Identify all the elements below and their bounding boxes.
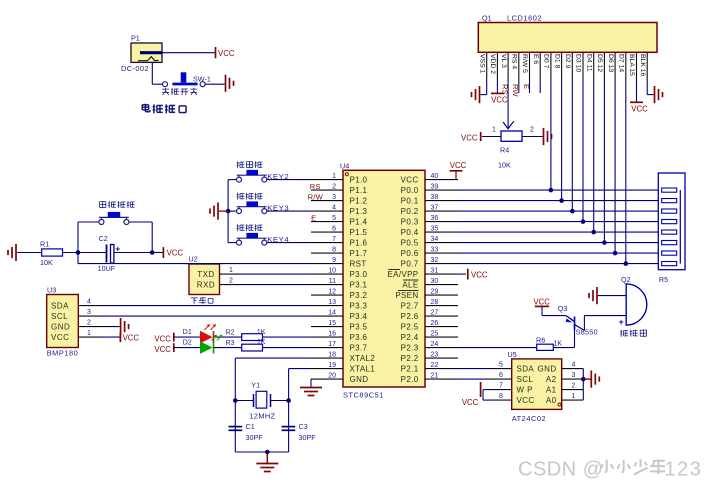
- svg-text:36: 36: [431, 215, 439, 222]
- svg-text:AT24C02: AT24C02: [512, 414, 547, 423]
- svg-text:10: 10: [328, 268, 336, 275]
- svg-text:U2: U2: [189, 255, 198, 264]
- svg-text:P1.4: P1.4: [350, 218, 368, 227]
- svg-text:P2.4: P2.4: [401, 333, 419, 342]
- svg-text:34: 34: [431, 236, 439, 243]
- svg-text:ALE: ALE: [402, 281, 418, 290]
- svg-text:VCC: VCC: [51, 333, 69, 342]
- svg-text:P3.6: P3.6: [350, 333, 368, 342]
- svg-text:8: 8: [332, 247, 336, 254]
- svg-text:VCC: VCC: [450, 161, 467, 170]
- svg-text:9: 9: [332, 257, 336, 264]
- svg-text:VCC: VCC: [631, 104, 648, 113]
- svg-text:P3.1: P3.1: [350, 281, 368, 290]
- svg-text:R3: R3: [226, 340, 235, 347]
- svg-text:17: 17: [328, 341, 336, 348]
- svg-text:P0.3: P0.3: [401, 218, 419, 227]
- svg-text:VCC: VCC: [123, 334, 140, 343]
- svg-text:GND: GND: [538, 365, 557, 374]
- svg-text:D7 14: D7 14: [618, 54, 625, 72]
- svg-text:25: 25: [431, 331, 439, 338]
- svg-text:31: 31: [431, 268, 439, 275]
- svg-text:SCL: SCL: [517, 375, 534, 384]
- svg-text:D5 12: D5 12: [596, 54, 603, 72]
- svg-text:RS: RS: [310, 182, 321, 191]
- svg-text:5: 5: [499, 361, 503, 368]
- svg-text:VCC: VCC: [462, 398, 479, 407]
- svg-text:P2.5: P2.5: [401, 323, 419, 332]
- svg-text:SDA: SDA: [51, 301, 69, 310]
- svg-text:R/W: R/W: [308, 192, 323, 201]
- svg-text:10UF: 10UF: [98, 264, 116, 273]
- svg-text:29: 29: [431, 289, 439, 296]
- svg-text:D6 13: D6 13: [607, 54, 614, 72]
- svg-text:30PF: 30PF: [246, 433, 264, 442]
- svg-text:37: 37: [431, 205, 439, 212]
- svg-text:P3.2: P3.2: [350, 291, 368, 300]
- svg-text:P0.1: P0.1: [401, 197, 419, 206]
- svg-text:SW-1: SW-1: [193, 74, 211, 83]
- svg-text:27: 27: [431, 310, 439, 317]
- svg-text:32: 32: [431, 257, 439, 264]
- svg-text:VCC: VCC: [491, 95, 508, 104]
- svg-text:VL 3: VL 3: [500, 54, 507, 68]
- svg-text:R4: R4: [500, 146, 509, 155]
- svg-text:22: 22: [431, 362, 439, 369]
- svg-text:20: 20: [328, 373, 336, 380]
- svg-text:26: 26: [431, 320, 439, 327]
- svg-text:P3.3: P3.3: [350, 302, 368, 311]
- svg-text:BLK 16: BLK 16: [639, 54, 646, 77]
- svg-text:R2: R2: [226, 330, 235, 337]
- svg-text:3: 3: [572, 372, 576, 379]
- svg-text:39: 39: [431, 184, 439, 191]
- svg-text:Y1: Y1: [251, 381, 260, 390]
- svg-text:D1: D1: [183, 329, 192, 336]
- svg-text:3: 3: [332, 194, 336, 201]
- svg-text:2: 2: [530, 126, 534, 133]
- svg-text:8: 8: [499, 393, 503, 400]
- svg-text:P3.7: P3.7: [350, 344, 368, 353]
- svg-text:EA/VPP: EA/VPP: [387, 270, 418, 279]
- svg-text:33: 33: [431, 247, 439, 254]
- svg-text:19: 19: [328, 362, 336, 369]
- svg-text:P1.0: P1.0: [350, 176, 368, 185]
- svg-text:18: 18: [328, 352, 336, 359]
- svg-text:2: 2: [572, 382, 576, 389]
- svg-text:VCC: VCC: [401, 176, 419, 185]
- svg-text:15: 15: [328, 320, 336, 327]
- svg-text:E: E: [311, 213, 316, 222]
- svg-text:A2: A2: [546, 375, 557, 384]
- svg-text:12MHZ: 12MHZ: [249, 411, 275, 420]
- svg-text:P2.0: P2.0: [401, 375, 419, 384]
- svg-text:GND: GND: [51, 322, 70, 331]
- svg-text:BMP180: BMP180: [47, 349, 79, 358]
- svg-text:P1.6: P1.6: [350, 239, 368, 248]
- svg-text:P2.1: P2.1: [401, 365, 419, 374]
- svg-text:VCC: VCC: [461, 134, 478, 143]
- svg-text:LCD1602: LCD1602: [507, 13, 542, 22]
- svg-text:P3.0: P3.0: [350, 270, 368, 279]
- svg-text:12: 12: [328, 289, 336, 296]
- svg-text:R5: R5: [659, 275, 668, 284]
- svg-text:21: 21: [431, 373, 439, 380]
- svg-text:VCC: VCC: [218, 49, 235, 58]
- svg-text:P1: P1: [131, 34, 140, 43]
- svg-text:P2.6: P2.6: [401, 312, 419, 321]
- svg-text:P3.5: P3.5: [350, 323, 368, 332]
- svg-text:PSEN: PSEN: [395, 291, 418, 300]
- svg-text:E: E: [522, 84, 531, 89]
- svg-text:E 6: E 6: [532, 54, 539, 64]
- svg-text:RXD: RXD: [197, 281, 215, 290]
- svg-text:11: 11: [329, 278, 336, 285]
- svg-text:P2.2: P2.2: [401, 354, 419, 363]
- svg-text:123: 123: [665, 459, 703, 481]
- svg-text:1: 1: [572, 393, 576, 400]
- svg-text:P0.2: P0.2: [401, 207, 419, 216]
- svg-text:P1.5: P1.5: [350, 228, 368, 237]
- svg-text:VCC: VCC: [533, 297, 550, 306]
- svg-text:C1: C1: [246, 422, 255, 431]
- svg-text:7: 7: [499, 382, 503, 389]
- svg-text:P1.1: P1.1: [350, 186, 368, 195]
- svg-text:1K: 1K: [257, 339, 266, 346]
- svg-text:R/W 5: R/W 5: [521, 54, 528, 73]
- svg-text:24: 24: [431, 341, 439, 348]
- svg-text:D1 8: D1 8: [553, 54, 560, 69]
- svg-text:2: 2: [332, 184, 336, 191]
- svg-text:VCC: VCC: [517, 396, 535, 405]
- svg-text:1: 1: [492, 126, 496, 133]
- svg-text:Q1: Q1: [482, 13, 492, 22]
- svg-text:U5: U5: [508, 350, 517, 359]
- svg-text:VSS 1: VSS 1: [478, 54, 485, 73]
- svg-text:P1.2: P1.2: [350, 197, 368, 206]
- svg-text:6: 6: [499, 372, 503, 379]
- svg-text:P2.7: P2.7: [401, 302, 419, 311]
- svg-text:1: 1: [87, 330, 91, 337]
- svg-text:38: 38: [431, 194, 439, 201]
- svg-text:R6: R6: [536, 335, 545, 344]
- svg-text:P1.3: P1.3: [350, 207, 368, 216]
- svg-text:VCC: VCC: [154, 345, 171, 354]
- svg-text:28: 28: [431, 299, 439, 306]
- svg-text:D4 11: D4 11: [585, 54, 592, 72]
- svg-text:RS: RS: [501, 84, 510, 95]
- svg-text:RW: RW: [511, 84, 520, 97]
- svg-text:1: 1: [332, 173, 336, 180]
- svg-text:VCC: VCC: [154, 335, 171, 344]
- svg-text:Q3: Q3: [558, 304, 568, 313]
- svg-text:S8550: S8550: [576, 327, 598, 336]
- svg-text:40: 40: [431, 173, 439, 180]
- svg-text:P0.7: P0.7: [401, 260, 419, 269]
- svg-text:P3.4: P3.4: [350, 312, 368, 321]
- svg-text:XTAL1: XTAL1: [350, 365, 376, 374]
- svg-text:2: 2: [87, 319, 91, 326]
- svg-text:D3 10: D3 10: [575, 54, 582, 72]
- svg-text:35: 35: [431, 226, 439, 233]
- svg-text:10K: 10K: [40, 258, 53, 267]
- svg-text:R1: R1: [40, 239, 49, 248]
- svg-text:1: 1: [229, 267, 233, 274]
- svg-text:C3: C3: [299, 422, 308, 431]
- svg-text:A0: A0: [546, 396, 557, 405]
- svg-text:4: 4: [572, 361, 576, 368]
- svg-text:BLA 15: BLA 15: [628, 54, 635, 76]
- svg-text:5: 5: [332, 215, 336, 222]
- svg-text:DC-002: DC-002: [121, 64, 149, 73]
- svg-text:P0.0: P0.0: [401, 186, 419, 195]
- svg-text:13: 13: [328, 299, 336, 306]
- svg-text:D2: D2: [183, 339, 192, 346]
- svg-text:14: 14: [328, 310, 336, 317]
- svg-text:VCC: VCC: [167, 249, 184, 258]
- svg-text:+: +: [619, 317, 624, 327]
- svg-text:Q2: Q2: [621, 275, 631, 284]
- svg-text:W P: W P: [517, 386, 533, 395]
- svg-text:SCL: SCL: [51, 312, 68, 321]
- svg-text:23: 23: [431, 352, 439, 359]
- svg-text:U3: U3: [47, 286, 56, 295]
- svg-text:2: 2: [229, 278, 233, 285]
- svg-text:1K: 1K: [257, 329, 266, 336]
- svg-text:P1.7: P1.7: [350, 249, 368, 258]
- svg-text:SDA: SDA: [517, 365, 535, 374]
- svg-text:CSDN @: CSDN @: [518, 459, 604, 481]
- svg-text:A1: A1: [546, 386, 557, 395]
- svg-text:STC89C51: STC89C51: [343, 391, 384, 400]
- svg-text:TXD: TXD: [197, 270, 215, 279]
- svg-text:U4: U4: [340, 161, 349, 170]
- svg-text:P0.5: P0.5: [401, 239, 419, 248]
- svg-text:VCC: VCC: [471, 270, 488, 279]
- svg-text:P2.3: P2.3: [401, 344, 419, 353]
- svg-text:3: 3: [87, 309, 91, 316]
- svg-text:30: 30: [431, 278, 439, 285]
- svg-text:1K: 1K: [554, 340, 563, 347]
- svg-text:RST: RST: [350, 260, 367, 269]
- svg-text:XTAL2: XTAL2: [350, 354, 376, 363]
- svg-text:16: 16: [328, 331, 336, 338]
- svg-text:GND: GND: [350, 375, 369, 384]
- svg-text:P0.6: P0.6: [401, 249, 419, 258]
- svg-text:10K: 10K: [498, 161, 511, 170]
- svg-text:7: 7: [332, 236, 336, 243]
- svg-text:D2 9: D2 9: [564, 54, 571, 69]
- svg-text:6: 6: [332, 226, 336, 233]
- svg-text:C2: C2: [99, 234, 108, 243]
- svg-text:4: 4: [332, 205, 336, 212]
- svg-text:4: 4: [87, 298, 91, 305]
- svg-text:30PF: 30PF: [299, 433, 317, 442]
- svg-text:VDD 2: VDD 2: [489, 54, 496, 74]
- svg-text:P0.4: P0.4: [401, 228, 419, 237]
- svg-text:D0 7: D0 7: [543, 54, 550, 69]
- svg-text:RS 4: RS 4: [511, 54, 518, 69]
